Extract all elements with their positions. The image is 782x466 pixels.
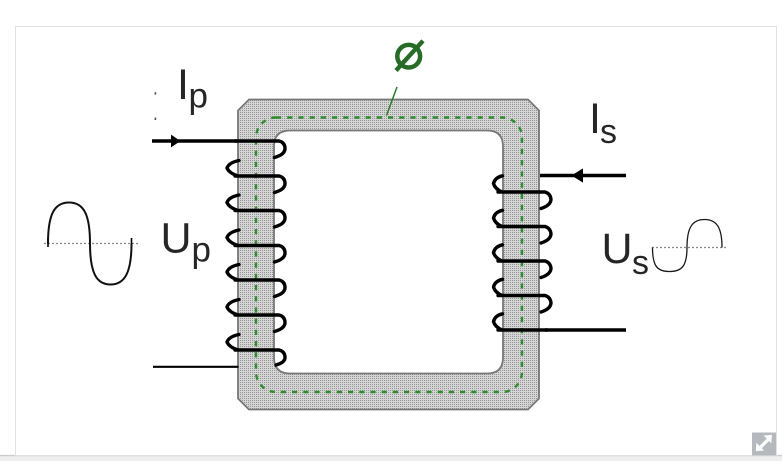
svg-text:I: I — [177, 61, 189, 109]
secondary sine symbol — [652, 220, 728, 272]
faint speck marks left of Ip — [155, 92, 157, 94]
flux label pointer line — [387, 87, 398, 116]
bottom divider line — [0, 455, 782, 457]
expand button — [752, 433, 776, 456]
wire: secondary top input lead — [540, 174, 626, 177]
flux path (dashed green loop) — [256, 118, 522, 393]
wire: secondary bottom output lead — [545, 328, 626, 331]
svg-text:p: p — [189, 77, 208, 116]
Is current arrow — [572, 168, 584, 182]
Ip current arrow — [171, 135, 181, 148]
wire: primary bottom output lead (thin, passes behind leg) — [153, 366, 239, 368]
primary winding L1 (left leg, 7 turns) — [227, 141, 285, 365]
svg-text:U: U — [161, 215, 192, 263]
bottom gutter strip — [0, 456, 782, 461]
flux symbol O-slash — [396, 41, 423, 71]
svg-text:s: s — [632, 244, 649, 282]
transformer core (dotted iron, with hole) — [238, 100, 539, 410]
wire: primary top input lead — [152, 139, 237, 142]
secondary winding L2 (right leg, 5 turns) — [494, 176, 552, 330]
svg-text:s: s — [600, 113, 617, 151]
svg-text:p: p — [192, 231, 211, 270]
svg-text:U: U — [602, 225, 633, 273]
primary sine symbol — [44, 203, 139, 285]
